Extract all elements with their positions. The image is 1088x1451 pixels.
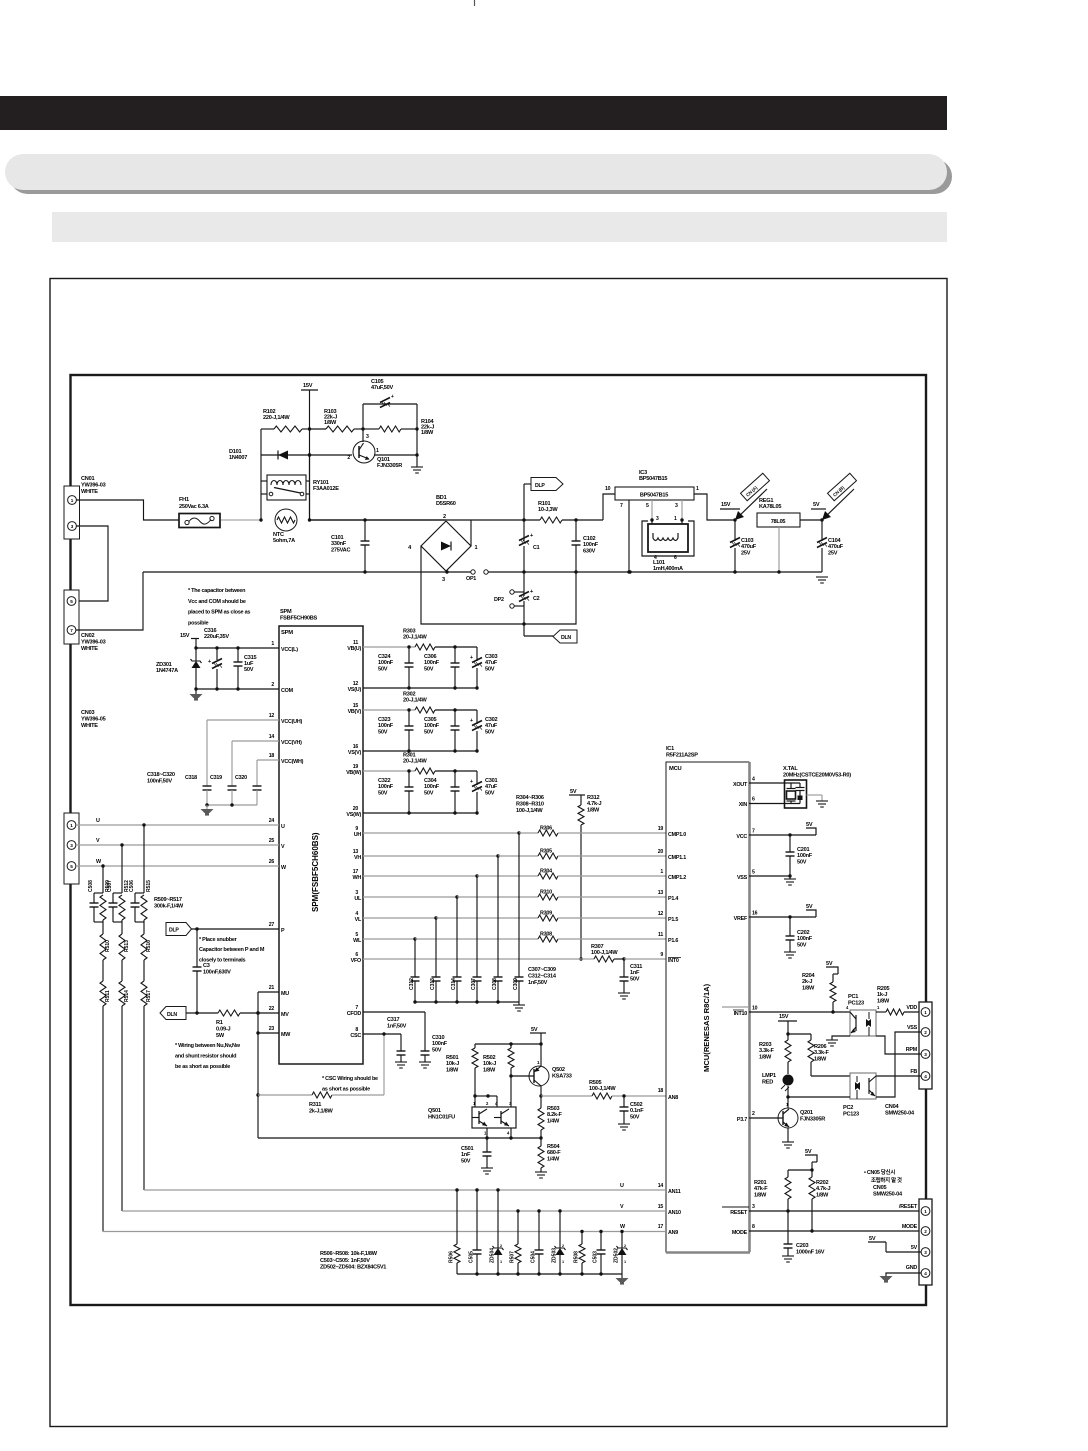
svg-text:AN9: AN9 — [668, 1230, 678, 1236]
svg-text:220uF,35V: 220uF,35V — [204, 634, 229, 640]
svg-text:SPM: SPM — [281, 630, 293, 636]
svg-text:R309: R309 — [540, 911, 552, 917]
svg-text:R506~R508: 10k-F,1/8W: R506~R508: 10k-F,1/8W — [320, 1251, 378, 1257]
svg-text:UL: UL — [354, 896, 362, 902]
svg-text:25V: 25V — [741, 550, 751, 556]
wire PC1 ground — [832, 1036, 850, 1040]
svg-text:50V: 50V — [797, 942, 807, 948]
wire phase U — [76, 824, 279, 826]
svg-text:P1.4: P1.4 — [668, 896, 678, 902]
svg-text:C323: C323 — [378, 717, 391, 723]
svg-text:C104: C104 — [828, 538, 842, 544]
svg-text:R308~R310: R308~R310 — [516, 801, 544, 807]
svg-text:1/8W: 1/8W — [877, 998, 890, 1004]
svg-text:FSBF5CH90BS: FSBF5CH90BS — [280, 616, 318, 622]
jumper DP2 — [510, 590, 514, 594]
svg-text:50V: 50V — [461, 1158, 471, 1164]
svg-text:R201: R201 — [754, 1180, 767, 1186]
svg-text:SMW250-04: SMW250-04 — [885, 1111, 915, 1117]
svg-text:1000nF 16V: 1000nF 16V — [796, 1250, 825, 1256]
ground at C311 — [618, 992, 630, 994]
svg-text:12: 12 — [658, 911, 664, 917]
wire node 15V-R102-R103 — [308, 427, 311, 430]
svg-text:C312: C312 — [409, 978, 415, 990]
svg-text:3: 3 — [366, 434, 369, 440]
svg-text:C501: C501 — [461, 1146, 474, 1152]
wire fuse to NTC — [221, 519, 261, 521]
svg-text:26: 26 — [269, 859, 275, 865]
svg-text:C312~C314: C312~C314 — [528, 973, 557, 979]
wire CSC sense — [383, 1034, 385, 1095]
svg-text:5W: 5W — [216, 1033, 225, 1039]
svg-text:4.7k-J: 4.7k-J — [816, 1186, 830, 1192]
svg-text:50V: 50V — [424, 729, 434, 735]
snubber network phase U R515 C506 R516 R517 — [143, 825, 145, 893]
svg-text:11: 11 — [658, 932, 663, 938]
svg-text:R304~R306: R304~R306 — [516, 795, 544, 801]
snubber network phase W R509 C508 R510 R511 — [102, 866, 104, 893]
svg-text:C101: C101 — [331, 535, 344, 541]
ground at PC1 — [826, 1039, 838, 1041]
svg-text:R516: R516 — [146, 940, 152, 952]
svg-text:5: 5 — [70, 864, 73, 869]
svg-text:7: 7 — [752, 829, 755, 835]
svg-text:3: 3 — [924, 1052, 927, 1057]
svg-text:C314: C314 — [451, 978, 457, 990]
svg-text:R509~R517: R509~R517 — [154, 897, 182, 903]
banner tag CN(B) — [822, 489, 854, 520]
svg-text:ZD503: ZD503 — [552, 1248, 558, 1263]
svg-text:ZD502~ZD504: BZX84C5V1: ZD502~ZD504: BZX84C5V1 — [320, 1265, 386, 1271]
ground at Q201 — [782, 1141, 794, 1143]
svg-text:0.1nF: 0.1nF — [630, 1108, 644, 1114]
svg-text:8.2k-F: 8.2k-F — [547, 1112, 562, 1118]
wire PC2 LED cathode — [788, 1096, 850, 1098]
svg-text:* The capacitor between: * The capacitor between — [188, 588, 246, 594]
tag DLN — [553, 630, 577, 643]
svg-text:1/8W: 1/8W — [759, 1054, 772, 1060]
svg-text:2: 2 — [752, 1111, 755, 1117]
svg-text:PC1: PC1 — [848, 994, 858, 1000]
svg-text:R306: R306 — [540, 826, 552, 832]
svg-text:4: 4 — [924, 1074, 927, 1079]
svg-text:BP5047B15: BP5047B15 — [640, 493, 668, 499]
ground at C317 — [395, 1061, 407, 1063]
svg-text:1/8W: 1/8W — [324, 420, 337, 426]
svg-text:MV: MV — [281, 1012, 289, 1018]
svg-text:5V: 5V — [531, 1027, 538, 1033]
tag DLP top — [523, 484, 525, 520]
svg-text:CMP1.1: CMP1.1 — [668, 855, 686, 861]
svg-text:50V: 50V — [485, 729, 495, 735]
svg-text:X.TAL: X.TAL — [783, 766, 798, 772]
ground at Q101 — [411, 466, 423, 468]
svg-text:100nF: 100nF — [424, 784, 440, 790]
svg-text:R1: R1 — [216, 1020, 223, 1026]
svg-text:CN02: CN02 — [81, 633, 94, 639]
svg-text:+: + — [208, 659, 211, 665]
svg-text:14: 14 — [269, 734, 275, 740]
svg-text:1/8W: 1/8W — [816, 1192, 829, 1198]
resistor R1 shunt — [186, 1012, 218, 1014]
svg-text:* Wiring between Nu,Nv,Nw: * Wiring between Nu,Nv,Nw — [175, 1043, 241, 1049]
svg-text:14: 14 — [658, 1183, 664, 1189]
svg-text:R307: R307 — [591, 944, 604, 950]
ground at R504 — [535, 1171, 547, 1173]
svg-text:RESET: RESET — [730, 1210, 748, 1216]
section pill — [5, 154, 947, 190]
svg-text:R308: R308 — [540, 932, 552, 938]
svg-text:XIN: XIN — [739, 802, 748, 808]
svg-text:5V: 5V — [806, 904, 813, 910]
svg-text:47uF: 47uF — [485, 660, 498, 666]
svg-text:P1.5: P1.5 — [668, 917, 678, 923]
svg-text:as short as possible: as short as possible — [322, 1087, 370, 1093]
svg-text:R513: R513 — [124, 940, 130, 952]
capacitor C3 — [196, 929, 198, 967]
svg-text:50V: 50V — [378, 790, 388, 796]
svg-text:GND: GND — [906, 1265, 918, 1271]
svg-text:1nF: 1nF — [630, 970, 640, 976]
svg-text:P1.6: P1.6 — [668, 938, 678, 944]
svg-text:C301: C301 — [485, 778, 498, 784]
svg-text:50V: 50V — [797, 859, 807, 865]
svg-text:1/8W: 1/8W — [802, 985, 815, 991]
svg-text:50V: 50V — [432, 1047, 442, 1053]
svg-text:1/8W: 1/8W — [587, 807, 600, 813]
wire REG1 ground — [778, 527, 780, 572]
svg-text:R502: R502 — [483, 1055, 496, 1061]
svg-text:C316: C316 — [204, 628, 217, 634]
wire VSS to PC2 — [876, 1032, 921, 1097]
wire VS return C323 — [363, 750, 477, 752]
svg-text:3: 3 — [924, 1250, 927, 1255]
zener ZD502 — [620, 1230, 623, 1233]
wire VREF — [749, 916, 816, 918]
svg-text:FJN3305R: FJN3305R — [800, 1116, 825, 1122]
svg-text:VCC(VH): VCC(VH) — [281, 740, 302, 746]
svg-text:1/8W: 1/8W — [446, 1067, 459, 1073]
svg-text:Q502: Q502 — [552, 1067, 565, 1073]
svg-text:12: 12 — [269, 713, 275, 719]
svg-text:R510: R510 — [105, 940, 111, 952]
svg-text:BP5047B15: BP5047B15 — [639, 476, 667, 482]
wire IC3 pin1 out — [694, 494, 735, 520]
svg-text:WHITE: WHITE — [81, 723, 98, 729]
svg-text:100nF: 100nF — [797, 853, 813, 859]
zener ZD504 — [496, 1188, 499, 1191]
wire gate UH — [363, 832, 519, 834]
svg-text:R511: R511 — [105, 990, 111, 1002]
svg-text:10: 10 — [752, 1006, 758, 1012]
svg-text:DLP: DLP — [535, 483, 545, 489]
svg-text:WH: WH — [353, 875, 362, 881]
svg-text:1N4007: 1N4007 — [229, 455, 247, 461]
banner tag CN(A) — [735, 489, 767, 520]
svg-text:COM: COM — [281, 688, 294, 694]
svg-text:20: 20 — [658, 849, 664, 855]
svg-text:R514: R514 — [124, 990, 130, 1002]
wire phase W — [76, 865, 279, 867]
svg-text:2: 2 — [271, 682, 274, 688]
svg-text:C503~C505: 1nF,50V: C503~C505: 1nF,50V — [320, 1258, 370, 1264]
svg-text:PC2: PC2 — [843, 1105, 853, 1111]
svg-text:VS(V): VS(V) — [348, 750, 362, 756]
svg-text:C307~C309: C307~C309 — [528, 967, 556, 973]
wire MU MV MW bus — [257, 992, 259, 1138]
schematic frame — [71, 375, 927, 1305]
svg-text:1/4W: 1/4W — [547, 1118, 560, 1124]
capacitor C318 — [206, 720, 208, 786]
wire crystal ground — [807, 794, 823, 796]
svg-text:6: 6 — [752, 797, 755, 803]
svg-text:100nF: 100nF — [378, 660, 394, 666]
svg-text:VL: VL — [355, 917, 362, 923]
svg-text:470uF: 470uF — [741, 544, 757, 550]
svg-text:5V: 5V — [806, 822, 813, 828]
svg-text:50V: 50V — [244, 667, 254, 673]
svg-text:10k-J: 10k-J — [483, 1061, 496, 1067]
svg-text:RED: RED — [762, 1079, 773, 1085]
svg-text:U: U — [96, 818, 100, 824]
svg-text:1nF: 1nF — [461, 1152, 471, 1158]
svg-text:R504: R504 — [547, 1144, 561, 1150]
svg-text:5V: 5V — [826, 961, 833, 967]
svg-text:C502: C502 — [630, 1102, 643, 1108]
svg-text:R312: R312 — [587, 795, 600, 801]
svg-text:1: 1 — [924, 1209, 927, 1214]
capacitor C316 — [216, 648, 218, 660]
svg-text:U: U — [281, 824, 285, 830]
wire VCC — [749, 834, 816, 836]
svg-text:VH: VH — [354, 855, 361, 861]
svg-text:100nF: 100nF — [378, 723, 394, 729]
svg-text:CMP1.0: CMP1.0 — [668, 832, 686, 838]
svg-text:MODE: MODE — [902, 1224, 918, 1230]
svg-text:25V: 25V — [828, 550, 838, 556]
svg-text:+: + — [470, 718, 473, 724]
svg-text:VCC(WH): VCC(WH) — [281, 759, 304, 765]
svg-text:VB(W): VB(W) — [346, 770, 361, 776]
wire gate VH — [363, 855, 498, 857]
svg-text:22: 22 — [269, 1006, 275, 1012]
svg-text:17: 17 — [658, 1224, 664, 1230]
svg-text:C103: C103 — [741, 538, 754, 544]
svg-text:DP2: DP2 — [494, 597, 504, 603]
svg-text:CN01: CN01 — [81, 476, 94, 482]
ground at DC rail end — [816, 576, 828, 578]
svg-text:SMW250-04: SMW250-04 — [873, 1192, 903, 1198]
wire Q501 emitter stubs — [486, 1128, 488, 1152]
svg-text:YW396-03: YW396-03 — [81, 640, 106, 646]
svg-text:XOUT: XOUT — [733, 782, 748, 788]
svg-text:250Vac 6.3A: 250Vac 6.3A — [179, 504, 209, 510]
svg-text:C203: C203 — [796, 1243, 809, 1249]
ground at crystal — [816, 800, 828, 802]
svg-text:R509: R509 — [105, 880, 111, 892]
svg-text:YW396-03: YW396-03 — [81, 483, 106, 489]
svg-text:AN10: AN10 — [668, 1210, 681, 1216]
wire N bracket to Q501 — [258, 1137, 541, 1139]
ground at C310 — [419, 1061, 431, 1063]
power ground at zener bus — [621, 1274, 623, 1278]
svg-text:C302: C302 — [485, 717, 498, 723]
svg-text:R311: R311 — [309, 1102, 321, 1108]
svg-text:1: 1 — [70, 823, 73, 828]
svg-text:3.3k-F: 3.3k-F — [759, 1048, 774, 1054]
svg-text:5V: 5V — [813, 502, 820, 508]
svg-text:조립하지 말 것: 조립하지 말 것 — [871, 1176, 902, 1184]
svg-text:C319: C319 — [210, 775, 222, 781]
svg-text:1: 1 — [475, 545, 478, 551]
svg-text:1: 1 — [660, 869, 663, 875]
wire COM rail — [196, 688, 279, 690]
svg-text:1: 1 — [271, 641, 274, 647]
wire FB to PC2 — [876, 1075, 921, 1077]
wire AC live rail — [310, 519, 447, 521]
svg-text:100-J,1/4W: 100-J,1/4W — [589, 1086, 616, 1092]
capacitor C1 — [523, 520, 525, 541]
svg-text:0.09-J: 0.09-J — [216, 1026, 230, 1032]
svg-text:25: 25 — [269, 838, 275, 844]
wire DLN stub — [523, 572, 525, 596]
svg-text:VFO: VFO — [351, 958, 361, 964]
outer border — [50, 279, 947, 1427]
wire capacitor bank bus — [415, 1001, 519, 1003]
svg-text:C324: C324 — [378, 654, 392, 660]
ground at C203 — [782, 1255, 794, 1257]
wire INT1 line — [722, 1006, 749, 1008]
svg-text:AN8: AN8 — [668, 1095, 678, 1101]
svg-text:R503: R503 — [547, 1106, 560, 1112]
svg-text:DLN: DLN — [167, 1012, 177, 1018]
svg-text:* Place snubber: * Place snubber — [199, 937, 238, 943]
svg-text:WL: WL — [353, 938, 362, 944]
svg-text:ZD504: ZD504 — [490, 1248, 496, 1263]
svg-text:5: 5 — [646, 503, 649, 509]
svg-text:C318: C318 — [185, 775, 197, 781]
wire phase V — [76, 844, 279, 846]
svg-text:+: + — [470, 655, 473, 661]
capacitor C503 — [599, 1230, 602, 1233]
svg-text:VCC(L): VCC(L) — [281, 647, 298, 653]
svg-text:SPM: SPM — [280, 609, 292, 615]
svg-text:YW396-05: YW396-05 — [81, 717, 106, 723]
svg-text:50V: 50V — [424, 790, 434, 796]
ground at VSS — [789, 876, 791, 879]
svg-text:220-J,1/4W: 220-J,1/4W — [263, 415, 290, 421]
svg-text:16: 16 — [752, 911, 758, 917]
svg-text:21: 21 — [269, 985, 275, 991]
svg-text:INT10: INT10 — [734, 1011, 748, 1017]
tag DLP to P terminal — [166, 923, 192, 936]
svg-text:78L05: 78L05 — [771, 519, 786, 525]
svg-text:/RESET: /RESET — [899, 1204, 918, 1210]
svg-text:100nF,50V: 100nF,50V — [147, 778, 172, 784]
wire BD1 output — [470, 520, 472, 546]
svg-text:CFOD: CFOD — [347, 1011, 362, 1017]
svg-text:R5F211A2SP: R5F211A2SP — [666, 752, 698, 758]
svg-text:C3: C3 — [203, 963, 210, 969]
svg-text:C307: C307 — [471, 978, 477, 990]
page crop mark — [474, 0, 476, 6]
svg-text:be as short as possible: be as short as possible — [175, 1064, 230, 1070]
svg-text:1: 1 — [696, 486, 699, 492]
capacitor C2 — [519, 592, 529, 597]
svg-text:47uF,50V: 47uF,50V — [371, 385, 393, 391]
svg-text:R303: R303 — [403, 629, 416, 635]
svg-text:2: 2 — [500, 1244, 502, 1248]
svg-text:INT0: INT0 — [668, 958, 679, 964]
svg-text:Q201: Q201 — [800, 1110, 813, 1116]
snubber network phase V R512 C507 R513 R514 — [121, 845, 123, 893]
ground at C502 — [618, 1123, 630, 1125]
svg-text:AN11: AN11 — [668, 1189, 681, 1195]
svg-text:R517: R517 — [146, 990, 152, 1002]
svg-text:100nF: 100nF — [424, 723, 440, 729]
svg-text:1: 1 — [500, 1260, 502, 1264]
svg-text:MODE: MODE — [732, 1230, 748, 1236]
svg-text:R205: R205 — [877, 986, 890, 992]
svg-text:C2: C2 — [533, 596, 540, 602]
svg-text:47k-F: 47k-F — [754, 1186, 768, 1192]
svg-text:PC123: PC123 — [848, 1000, 864, 1006]
sub-header gray bar — [52, 212, 947, 242]
svg-text:5ohm,7A: 5ohm,7A — [273, 538, 295, 544]
svg-text:7: 7 — [620, 503, 623, 509]
svg-text:23: 23 — [269, 1026, 275, 1032]
wire gate UL — [363, 896, 457, 898]
svg-text:50V: 50V — [424, 666, 434, 672]
svg-text:5V: 5V — [570, 789, 577, 795]
wire GND at CN05 — [886, 1273, 921, 1276]
svg-text:MU: MU — [281, 991, 289, 997]
svg-text:2: 2 — [624, 1244, 626, 1248]
svg-text:PC123: PC123 — [843, 1111, 859, 1117]
svg-text:F3AA012E: F3AA012E — [313, 486, 339, 492]
svg-text:100-J,1/4W: 100-J,1/4W — [591, 950, 618, 956]
svg-text:300k-F,1/4W: 300k-F,1/4W — [154, 903, 184, 909]
svg-text:1N4747A: 1N4747A — [156, 668, 178, 674]
svg-text:R202: R202 — [816, 1180, 829, 1186]
svg-text:C317: C317 — [387, 1017, 400, 1023]
zener ZD503 — [558, 1209, 561, 1212]
svg-text:50V: 50V — [485, 790, 495, 796]
svg-text:8: 8 — [752, 1224, 755, 1230]
svg-text:630V: 630V — [583, 548, 596, 554]
svg-text:C311: C311 — [630, 964, 642, 970]
svg-text:24: 24 — [269, 818, 275, 824]
svg-text:R304: R304 — [540, 869, 552, 875]
svg-text:1: 1 — [376, 448, 379, 454]
svg-text:Q501: Q501 — [428, 1108, 441, 1114]
svg-text:4: 4 — [752, 777, 755, 783]
svg-text:FH1: FH1 — [179, 497, 189, 503]
svg-text:100nF: 100nF — [424, 660, 440, 666]
svg-text:5V: 5V — [805, 1149, 812, 1155]
wire IC3 pin3 — [681, 500, 683, 520]
svg-text:VS(W): VS(W) — [346, 812, 361, 818]
svg-text:UH: UH — [354, 832, 362, 838]
svg-text:50V: 50V — [378, 729, 388, 735]
SPM IC body — [279, 626, 363, 1064]
wire VS return C322 — [363, 812, 477, 814]
power ground at COM — [195, 689, 197, 694]
svg-text:1: 1 — [924, 1010, 927, 1015]
svg-text:C313: C313 — [430, 978, 436, 990]
svg-text:R512: R512 — [124, 880, 130, 892]
power ground at bypass bus — [206, 805, 208, 809]
